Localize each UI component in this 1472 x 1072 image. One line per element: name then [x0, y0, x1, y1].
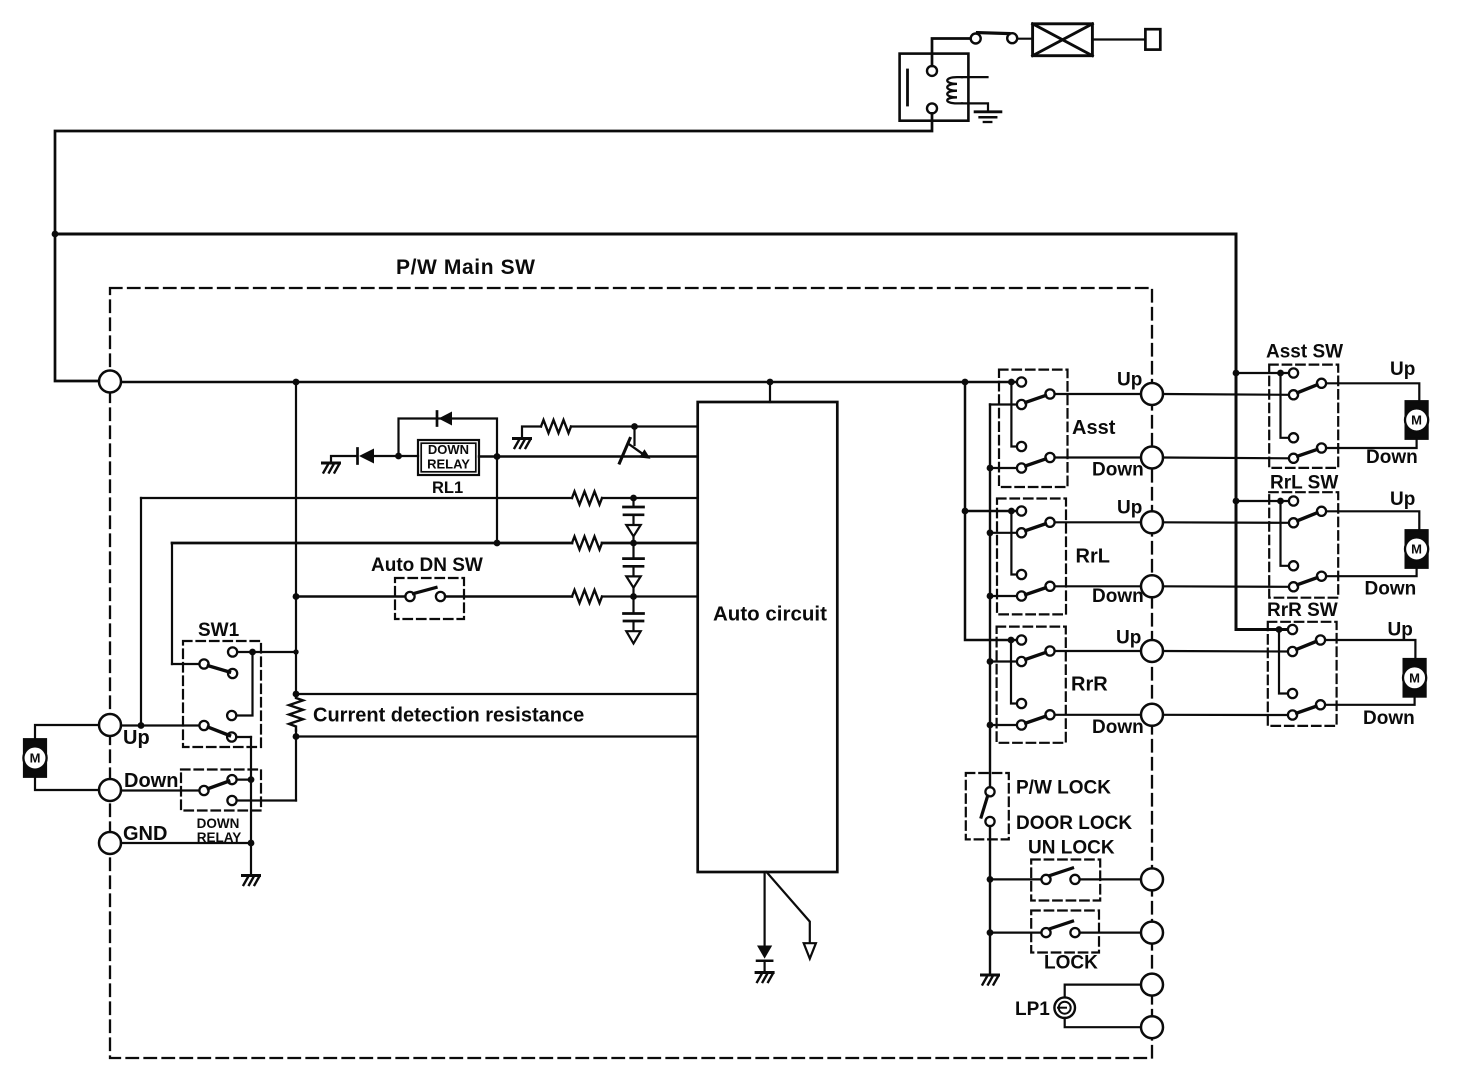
- LOCK dashed box: [1031, 911, 1099, 953]
- wire Asst Up output: [1055, 393, 1141, 395]
- wire RrR Down output: [1055, 714, 1141, 716]
- RrL down pole: [1045, 582, 1054, 591]
- diode D3 (output to ground): [757, 946, 772, 959]
- SW1 sw-a contacts: [228, 647, 237, 656]
- junction row2 left: [494, 540, 501, 547]
- motor Asst: [1405, 401, 1428, 439]
- wire GND connector to riser: [121, 842, 251, 844]
- relay top contact: [927, 66, 937, 76]
- svg-text:Up: Up: [1390, 359, 1415, 380]
- wire Asst Up to Asst SW: [1163, 393, 1289, 396]
- RrR SW up contacts: [1288, 625, 1297, 634]
- svg-text:Down: Down: [1366, 447, 1418, 468]
- junction: [962, 379, 969, 386]
- junction: [494, 453, 501, 460]
- svg-text:Asst SW: Asst SW: [1266, 342, 1343, 363]
- wire fuse to battery terminal: [1092, 38, 1145, 40]
- svg-text:Down: Down: [1092, 586, 1144, 607]
- connector RrL Up: [1141, 511, 1163, 533]
- wire row1 to auto circuit: [602, 497, 698, 499]
- Auto DN SW dashed box: [395, 578, 464, 619]
- wire Up connector to motor: [35, 725, 99, 739]
- ground (SW1 riser): [243, 876, 260, 886]
- wire auto circuit slanted output arrow: [767, 872, 810, 943]
- wire ground to bias resistor: [522, 427, 541, 438]
- wire relay lower contact to node bus: [237, 799, 296, 801]
- svg-text:RELAY: RELAY: [427, 457, 470, 472]
- wire SW1 upper throw to left riser: [172, 663, 199, 665]
- relay (ignition) box: [900, 54, 969, 121]
- svg-text:Up: Up: [1390, 489, 1415, 510]
- lamp LP1: [1054, 997, 1075, 1018]
- junction: [987, 658, 994, 665]
- transistor Q1 (SCR): [620, 427, 651, 464]
- P/W Main SW dashed enclosure: [110, 288, 1152, 1058]
- svg-text:UN LOCK: UN LOCK: [1028, 838, 1115, 859]
- junction: [249, 649, 256, 656]
- svg-text:Down: Down: [1092, 717, 1144, 738]
- P/W LOCK dashed box: [966, 773, 1009, 839]
- Asst down pole: [1045, 453, 1054, 462]
- svg-text:Up: Up: [1117, 498, 1142, 519]
- capacitor chain row2-row3: [624, 543, 644, 597]
- Asst SW up lever: [1298, 385, 1317, 393]
- SW1 sw-b lever: [208, 727, 229, 735]
- wire link supply to down switch: [1011, 382, 1017, 447]
- wire lamp top: [1065, 985, 1141, 998]
- relay bottom contact: [927, 103, 937, 113]
- svg-text:LOCK: LOCK: [1044, 953, 1098, 974]
- Asst up pole: [1045, 389, 1054, 398]
- wire RrR Up output: [1055, 650, 1141, 652]
- Auto DN SW contacts: [405, 592, 414, 601]
- svg-text:P/W Main SW: P/W Main SW: [396, 256, 536, 279]
- svg-text:DOWN: DOWN: [197, 816, 240, 831]
- wire RrR down lower contact to common bus: [990, 724, 1017, 726]
- svg-text:Auto circuit: Auto circuit: [713, 603, 827, 626]
- wire auto DN row to resistor: [445, 595, 572, 598]
- Asst up contacts: [1017, 377, 1026, 386]
- wire link Asst SW: [1281, 373, 1289, 438]
- svg-text:RrL SW: RrL SW: [1270, 473, 1338, 494]
- svg-text:RELAY: RELAY: [197, 830, 242, 845]
- wire resistor top row to auto circuit: [296, 693, 698, 695]
- relay armature blade: [906, 70, 909, 105]
- junction remote bus RrL: [1233, 498, 1240, 505]
- current detection resistance (vertical zigzag): [289, 694, 303, 731]
- ground (RL1 input diode): [323, 463, 340, 473]
- wire RrL Up to RrL SW: [1163, 521, 1289, 524]
- wire common bus x=990 upper: [989, 405, 991, 788]
- DOWN RELAY lever: [208, 781, 228, 788]
- wire main supply bus y=382: [121, 381, 1017, 384]
- Asst SW up pole: [1317, 379, 1326, 388]
- wire RrL SW up output to motor: [1326, 511, 1419, 530]
- RrL SW dashed box: [1269, 492, 1338, 598]
- wire RrL Up output: [1055, 521, 1141, 523]
- junction: [987, 465, 994, 472]
- resistor bias: [541, 420, 571, 433]
- svg-text:Down: Down: [1092, 460, 1144, 481]
- wire common bus x=990 lower to ground: [989, 826, 991, 973]
- RrR SW down pole: [1316, 700, 1325, 709]
- junction auto DN row: [293, 593, 300, 600]
- RrL up pole: [1045, 518, 1054, 527]
- wire Asst SW up output to motor: [1326, 383, 1419, 401]
- diode D2 (bypass): [436, 412, 439, 426]
- wire link RrR SW: [1279, 630, 1288, 694]
- wire ground to diode: [331, 456, 356, 462]
- Asst SW down pole: [1317, 443, 1326, 452]
- wire vertical node bus x=296: [295, 382, 297, 801]
- Asst SW down lever: [1298, 450, 1317, 457]
- svg-text:GND: GND: [123, 823, 167, 845]
- wire Up connector to SW1: [121, 724, 199, 726]
- Auto DN SW lever: [414, 588, 437, 594]
- RrL SW down pole: [1317, 572, 1326, 581]
- wire row2 to auto circuit: [602, 542, 698, 545]
- RrL down lever: [1026, 588, 1046, 595]
- wire link supply to down switch: [1011, 511, 1017, 575]
- diode D1 (to RL1): [356, 449, 359, 464]
- junction: [395, 453, 402, 460]
- junction resistor bottom: [293, 733, 300, 740]
- UN LOCK lever: [1050, 868, 1073, 876]
- LOCK lever: [1050, 921, 1073, 929]
- wire unlock to connector: [1080, 878, 1141, 880]
- SW1 sw-a lever: [208, 666, 229, 672]
- wire SW1 sw-a common to node bus: [237, 651, 296, 653]
- svg-text:Up: Up: [123, 727, 150, 749]
- SW1 sw-b contacts: [227, 711, 236, 720]
- wire bus x=965 to RrR feed: [965, 382, 1017, 640]
- wire supply into auto circuit: [769, 382, 771, 402]
- wire Down connector to motor: [35, 777, 99, 790]
- wire lock row: [990, 931, 1041, 933]
- wire RrL up lower contact to common bus: [990, 532, 1017, 534]
- SW1 dashed box: [183, 641, 261, 747]
- wire RrR SW up output to motor: [1325, 640, 1415, 660]
- RrR up contacts: [1017, 635, 1026, 644]
- wire auto circuit output to diode: [763, 872, 765, 945]
- svg-text:RL1: RL1: [432, 479, 463, 497]
- LOCK switch contacts: [1041, 928, 1050, 937]
- DOWN RELAY contact dashed box: [181, 770, 261, 811]
- junction: [987, 929, 994, 936]
- wire RrL SW down output to motor: [1326, 568, 1417, 576]
- junction supply rail: [52, 231, 59, 238]
- connector lock: [1141, 922, 1163, 944]
- wire Asst up lower contact to common bus: [990, 403, 1017, 405]
- wire RrL SW supply: [1236, 500, 1289, 502]
- RrL SW down lever: [1298, 578, 1317, 585]
- ground (relay coil, bar style): [975, 110, 1001, 113]
- wire riser x=172 to row2: [171, 543, 173, 664]
- RrL up lever: [1026, 524, 1046, 531]
- wire row3 to auto circuit: [602, 595, 698, 597]
- wire Asst SW down output to motor: [1326, 438, 1417, 448]
- RrL SW up lever: [1298, 513, 1317, 521]
- wire link RrL SW: [1281, 501, 1289, 566]
- relay coil: [947, 77, 962, 103]
- wire resistor bottom row to auto circuit: [296, 735, 698, 737]
- junction resistor top: [293, 691, 300, 698]
- DOWN RELAY contacts: [227, 775, 236, 784]
- wire Asst SW supply: [1236, 372, 1289, 374]
- junction: [987, 876, 994, 883]
- ground (lock bus): [982, 975, 999, 985]
- wire RrL Down output: [1055, 585, 1141, 587]
- UN LOCK switch contacts: [1041, 875, 1050, 884]
- wire relay top contact to ignition switch: [932, 39, 971, 66]
- wire diode to relay RL1: [374, 455, 418, 457]
- junction RrR SW supply: [1276, 626, 1283, 633]
- svg-text:DOWN: DOWN: [428, 442, 469, 457]
- Asst up lever: [1026, 396, 1046, 403]
- connector RrL Down: [1141, 575, 1163, 597]
- RrR SW down lever: [1297, 706, 1316, 713]
- svg-text:RrR: RrR: [1071, 674, 1108, 696]
- junction: [248, 840, 255, 847]
- RrL up contacts: [1017, 506, 1026, 515]
- wire lock to connector: [1080, 931, 1141, 933]
- RrL SW down contacts: [1289, 561, 1298, 570]
- wire auto DN row left: [296, 595, 405, 598]
- junction: [631, 423, 638, 430]
- resistor row1: [572, 492, 602, 505]
- RrR down pole: [1045, 710, 1054, 719]
- Asst down contacts: [1017, 442, 1026, 451]
- wire RrL feed: [965, 510, 1017, 513]
- Asst SW down contacts: [1289, 433, 1298, 442]
- RrR up pole: [1045, 646, 1054, 655]
- ignition switch: [971, 34, 981, 44]
- RrR up lever: [1026, 653, 1046, 660]
- connector lamp top: [1141, 974, 1163, 996]
- junction row1: [630, 495, 637, 502]
- junction small: [293, 649, 298, 654]
- connector (supply, left edge): [99, 371, 121, 393]
- wire riser x=141 to row1: [140, 498, 142, 726]
- junction: [962, 508, 969, 515]
- P/W LOCK switch contacts: [985, 787, 994, 796]
- ground (bias resistor): [514, 439, 531, 449]
- svg-text:Asst: Asst: [1072, 417, 1116, 439]
- RrL switch dashed box: [997, 499, 1066, 615]
- battery terminal: [1145, 29, 1160, 49]
- svg-text:Auto DN SW: Auto DN SW: [371, 555, 483, 576]
- connector unlock: [1141, 868, 1163, 890]
- wire unlock row: [990, 878, 1041, 880]
- svg-text:Down: Down: [1363, 708, 1415, 729]
- svg-text:Current detection resistance: Current detection resistance: [313, 705, 584, 727]
- Asst down lever: [1026, 459, 1046, 466]
- junction: [767, 379, 774, 386]
- junction: [248, 776, 255, 783]
- capacitor chain row3-down: [624, 597, 644, 644]
- node arrow (open triangle): [804, 943, 816, 958]
- junction: [1008, 637, 1015, 644]
- wire ground riser x=251: [250, 737, 252, 874]
- junction: [987, 593, 994, 600]
- ground (auto circuit output): [756, 973, 773, 983]
- left connector Down: [99, 779, 121, 801]
- RrR SW up lever: [1297, 642, 1316, 650]
- svg-text:Up: Up: [1388, 620, 1413, 641]
- RrR SW down contacts: [1288, 689, 1297, 698]
- junction: [987, 722, 994, 729]
- wire relay upper contact to riser: [237, 778, 251, 780]
- Asst SW up contacts: [1289, 368, 1298, 377]
- svg-text:LP1: LP1: [1015, 999, 1050, 1020]
- svg-text:SW1: SW1: [198, 620, 240, 641]
- RrR down contacts: [1017, 699, 1026, 708]
- junction: [1277, 370, 1284, 377]
- capacitor chain row1-row2: [624, 498, 644, 543]
- wire bias resistor to auto circuit: [571, 425, 698, 427]
- motor M (door): [23, 739, 46, 777]
- wire Asst Down output: [1055, 456, 1141, 458]
- junction: [138, 722, 145, 729]
- Asst switch dashed box: [999, 370, 1068, 487]
- wire RL1 output to auto circuit (gate row): [479, 455, 698, 457]
- RrR SW up pole: [1316, 635, 1325, 644]
- RrL SW up pole: [1317, 507, 1326, 516]
- junction: [987, 529, 994, 536]
- wire lamp bottom: [1065, 1018, 1141, 1027]
- svg-text:Down: Down: [124, 770, 178, 792]
- svg-text:Up: Up: [1116, 628, 1141, 649]
- junction: [293, 379, 300, 386]
- junction: [1008, 508, 1015, 515]
- wire sw-b lower contact to ground riser: [236, 736, 251, 738]
- junction remote bus Asst: [1233, 370, 1240, 377]
- wire relay output to left rail down to P/W main SW supply: [55, 113, 932, 381]
- resistor row3: [572, 590, 602, 603]
- connector RrR Up: [1141, 640, 1163, 662]
- fuse: [1033, 24, 1093, 56]
- RrL down contacts: [1017, 570, 1026, 579]
- svg-text:DOOR LOCK: DOOR LOCK: [1016, 813, 1132, 834]
- wire RrR Down to RrR SW: [1163, 714, 1289, 716]
- svg-text:P/W LOCK: P/W LOCK: [1016, 778, 1111, 799]
- wire top feed rail to remote switch bus: [55, 234, 1289, 630]
- RrR down lever: [1026, 716, 1046, 723]
- wire coil top stub: [962, 76, 988, 78]
- junction: [1277, 498, 1284, 505]
- connector Asst Down: [1141, 447, 1163, 469]
- wire RrL down lower contact to common bus: [990, 595, 1017, 597]
- left connector Up: [99, 714, 121, 736]
- wire branch down to sw-b upper contact: [236, 652, 252, 716]
- svg-text:Down: Down: [1365, 579, 1417, 600]
- auto circuit box U1: [698, 402, 838, 872]
- Asst SW dashed box: [1269, 365, 1338, 468]
- wire coil to ground: [962, 103, 988, 111]
- wire Asst down lower contact to common bus: [990, 467, 1017, 469]
- wire RrR SW down output to motor: [1325, 696, 1415, 705]
- wire link supply to down switch: [1011, 640, 1017, 704]
- junction: [1008, 379, 1015, 386]
- wire RrL Down to RrL SW: [1163, 585, 1289, 588]
- junction row2 right: [630, 540, 637, 547]
- svg-text:RrR SW: RrR SW: [1267, 600, 1338, 621]
- RrL SW up contacts: [1289, 496, 1298, 505]
- wire RrR up lower contact to common bus: [990, 660, 1017, 662]
- wire Asst Down to Asst SW: [1163, 456, 1289, 459]
- svg-text:Up: Up: [1117, 370, 1142, 391]
- svg-text:RrL: RrL: [1076, 546, 1110, 568]
- connector RrR Down: [1141, 704, 1163, 726]
- connector lamp bottom: [1141, 1016, 1163, 1038]
- wire RrR Up to RrR SW: [1163, 650, 1289, 653]
- wire Down connector to relay contact: [121, 789, 199, 791]
- relay RL1 (DOWN RELAY coil box): [418, 440, 479, 475]
- connector Asst Up: [1141, 383, 1163, 405]
- UN LOCK dashed box: [1031, 860, 1100, 901]
- wire RL1 bypass loop with diode D2: [399, 419, 498, 544]
- motor RrR: [1403, 659, 1426, 697]
- motor RrL: [1405, 530, 1428, 568]
- left connector GND: [99, 832, 121, 854]
- RrR SW dashed box: [1268, 622, 1337, 726]
- P/W LOCK lever: [981, 796, 987, 817]
- wire switch to fuse: [1017, 38, 1032, 40]
- RrR switch dashed box: [997, 627, 1066, 743]
- wire row1 to resistor: [141, 497, 572, 499]
- wire row2 to resistor: [172, 542, 572, 545]
- junction row3: [630, 593, 637, 600]
- resistor row2: [572, 537, 602, 550]
